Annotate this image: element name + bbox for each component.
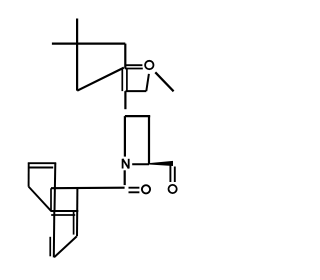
wire cyclobutane right edge — [124, 44, 126, 69]
wire aromatic top edge inner line — [30, 167, 54, 169]
wire azetidine right edge — [148, 116, 150, 164]
wire square-ring bottom edge — [126, 90, 147, 92]
wire C=O double bond upper line (top ester) — [125, 64, 142, 66]
wire central vertical upper segment — [54, 163, 57, 212]
wire C=O double bond lower line (top ester) — [125, 68, 143, 70]
wire right vertical main — [76, 188, 78, 236]
wire cyclobutane diagonal edge — [77, 68, 124, 91]
wire wedge bond C2 to CHO — [149, 161, 173, 166]
wire methyl-up + cyclobutane left edge — [76, 19, 78, 91]
atom O3 (amide oxygen) — [142, 185, 150, 193]
wire central vertical lower segment — [53, 211, 56, 257]
wire long C-C bond to fluorenyl CH — [51, 187, 125, 190]
wire aromatic top edge outer line — [28, 162, 56, 164]
wire aromatic diagonal edge — [29, 187, 52, 212]
wire N-C(O) bond — [124, 170, 126, 185]
wire amide C=O lower line — [129, 191, 140, 193]
atom O2 (aldehyde oxygen) — [169, 185, 177, 193]
wire azetidine top edge — [125, 115, 150, 117]
wire square-ring right edge — [146, 74, 149, 91]
wire square-ring left double bond inner line — [126, 69, 128, 91]
wire O-CH2 diagonal bond — [155, 72, 173, 91]
atom O1 (top oxygen) — [145, 61, 153, 69]
wire amide C=O upper line — [129, 187, 140, 189]
wire bond below square ring — [124, 91, 126, 109]
wire methyl-left + cyclobutane top edge — [52, 42, 125, 44]
wire middle horizontal outer line — [51, 210, 78, 212]
wire bottom diagonal edge — [54, 236, 77, 257]
wire square-ring left double bond outer line — [121, 69, 123, 91]
atom N1 (azetidine nitrogen) — [123, 159, 129, 169]
wire N-C2 bond (azetidine bottom edge) — [132, 163, 149, 165]
wire middle horizontal inner line — [51, 214, 75, 216]
wire aldehyde C=O left line — [169, 165, 171, 182]
wire right vertical partner — [73, 211, 75, 234]
wire aromatic left edge — [28, 163, 30, 187]
wire azetidine left edge — [124, 116, 126, 157]
wire central vertical partner lower — [49, 237, 51, 256]
wire central vertical partner upper — [50, 188, 52, 210]
wire aldehyde C=O right line — [174, 167, 176, 183]
